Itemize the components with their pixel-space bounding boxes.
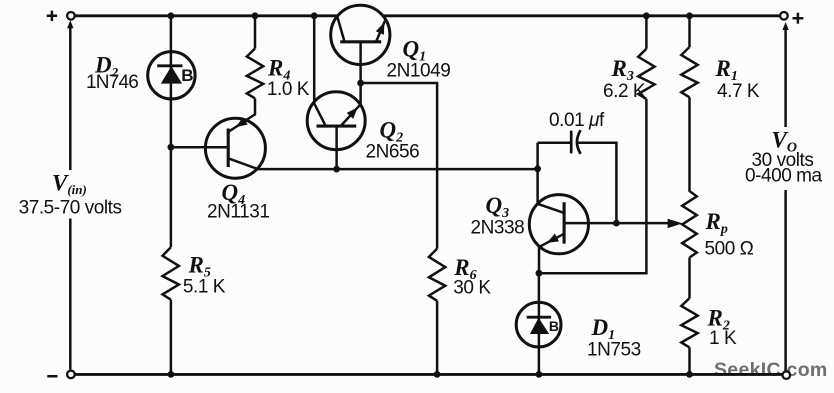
svg-text:1 K: 1 K (709, 328, 737, 349)
svg-text:4.7 K: 4.7 K (717, 81, 760, 102)
svg-text:5.1 K: 5.1 K (183, 277, 226, 298)
svg-text:2N656: 2N656 (366, 141, 420, 162)
svg-text:B: B (549, 318, 559, 334)
svg-text:0-400 ma: 0-400 ma (745, 166, 823, 187)
svg-text:6.2 K: 6.2 K (603, 81, 646, 102)
svg-text:B: B (181, 66, 193, 85)
svg-text:2N1131: 2N1131 (207, 202, 269, 223)
svg-text:2N338: 2N338 (471, 218, 525, 239)
svg-text:1.0 K: 1.0 K (267, 79, 310, 100)
svg-text:37.5-70 volts: 37.5-70 volts (19, 197, 122, 218)
svg-text:500 Ω: 500 Ω (705, 239, 754, 260)
svg-text:30 K: 30 K (453, 278, 491, 299)
svg-text:0.01 μf: 0.01 μf (549, 110, 605, 131)
svg-text:1N753: 1N753 (587, 340, 641, 361)
svg-text:SeekIC.com: SeekIC.com (714, 359, 828, 381)
svg-text:1N746: 1N746 (86, 72, 138, 93)
svg-text:2N1049: 2N1049 (387, 60, 451, 81)
